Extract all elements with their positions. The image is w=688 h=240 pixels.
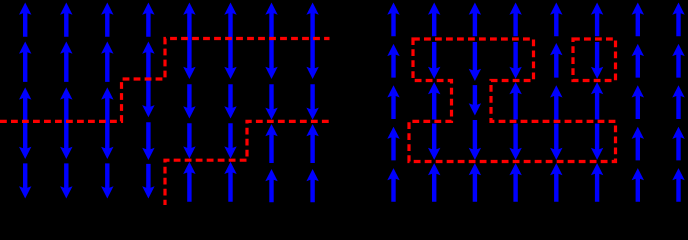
spin a-c6r1 up [224, 3, 236, 41]
spin a-c1r3 up [19, 87, 31, 123]
domain wall W2 (a) staircase [165, 121, 330, 206]
spin a-c6r4 down [224, 123, 236, 158]
spin a-c4r1 up [142, 3, 154, 37]
spin a-c6r3 down [224, 84, 236, 118]
spin a-c1r5 down [19, 163, 31, 198]
spin a-c6r2 down [224, 37, 236, 79]
spin a-c7r2 down [265, 37, 277, 79]
spin a-c2r5 down [60, 163, 72, 198]
spin b-c7r2 up [632, 44, 644, 78]
spin a-c8r2 down [306, 37, 318, 79]
spin b-c1r3 up [387, 85, 399, 119]
spin a-c2r4 down [60, 120, 72, 159]
spin b-c4r5 up [509, 163, 521, 202]
spin b-c3r4 down [469, 120, 481, 160]
spin b-c7r3 up [632, 85, 644, 119]
spin a-c5r4 down [183, 123, 195, 158]
spin b-c1r4 up [387, 127, 399, 161]
spin b-c2r4 down [428, 124, 440, 160]
spin b-c8r4 up [672, 127, 684, 161]
spin a-c2r3 up [60, 87, 72, 123]
spin b-c2r5 up [428, 163, 440, 202]
spin a-c1r1 up [19, 3, 31, 37]
spin a-c7r5 up [265, 169, 277, 202]
spin b-c6r4 down [591, 124, 603, 160]
spin b-c3r1 up [469, 3, 481, 37]
spin a-c8r1 up [306, 3, 318, 41]
spin a-c5r3 down [183, 84, 195, 118]
spin b-c6r3 up [591, 82, 603, 119]
spin a-c4r3 down [142, 77, 154, 117]
spin b-c5r3 up [550, 85, 562, 120]
droplet boundary D1 (b) non-convex loop [409, 39, 616, 162]
spin b-c4r4 down [509, 124, 521, 160]
spin b-c1r2 up [387, 44, 399, 78]
spin b-c5r2 up [550, 43, 562, 78]
spin a-c3r2 up [101, 42, 113, 82]
spin b-c6r5 up [591, 163, 603, 202]
spin b-c5r4 down [550, 124, 562, 160]
spin b-c8r2 up [672, 44, 684, 78]
spin b-c4r1 up [509, 3, 521, 37]
spin a-c1r2 up [19, 42, 31, 82]
spin b-c3r3 down [469, 85, 481, 115]
spin b-c8r5 up [672, 168, 684, 202]
droplet boundary D2 (b) single-spin box [573, 39, 616, 81]
spin b-c4r3 up [509, 82, 521, 119]
spin a-c4r4 down [142, 122, 154, 160]
spin a-c5r2 down [183, 37, 195, 79]
spin a-c2r2 up [60, 42, 72, 82]
spin a-c6r5 up [224, 162, 236, 202]
spin a-c4r2 up [142, 42, 154, 81]
spin a-c5r1 up [183, 3, 195, 41]
spin a-c4r5 down [142, 164, 154, 199]
spin a-c8r3 down [306, 84, 318, 120]
spin a-c3r1 up [101, 3, 113, 37]
spin a-c2r1 up [60, 3, 72, 37]
spin b-c5r1 up [550, 3, 562, 37]
spin b-c2r2 down [428, 42, 440, 79]
spin b-c3r5 up [469, 163, 481, 202]
spin a-c7r4 up [265, 124, 277, 163]
spin b-c3r2 down [469, 42, 481, 81]
spin a-c1r4 down [19, 120, 31, 159]
spin a-c7r1 up [265, 3, 277, 41]
spin b-c2r3 up [428, 82, 440, 119]
spin b-c1r1 up [387, 3, 399, 37]
spin b-c1r5 up [387, 168, 399, 202]
spin b-c5r5 up [550, 163, 562, 202]
spin b-c7r4 up [632, 127, 644, 161]
spin a-c3r3 up [101, 87, 113, 123]
spin b-c2r1 up [428, 3, 440, 37]
spin b-c4r2 down [509, 42, 521, 79]
spin b-c7r5 up [632, 168, 644, 202]
spin b-c6r1 up [591, 3, 603, 37]
spin b-c6r2 down [591, 42, 603, 79]
spin b-c8r3 up [672, 85, 684, 119]
domain wall W1 (a) staircase [0, 39, 330, 122]
spin a-c3r4 down [101, 120, 113, 159]
spin a-c8r5 up [306, 169, 318, 202]
spin a-c3r5 down [101, 163, 113, 198]
spin b-c8r1 up [672, 3, 684, 37]
spin a-c8r4 up [306, 124, 318, 163]
spin a-c5r5 up [183, 162, 195, 202]
spin a-c7r3 down [265, 84, 277, 120]
spin b-c7r1 up [632, 3, 644, 37]
